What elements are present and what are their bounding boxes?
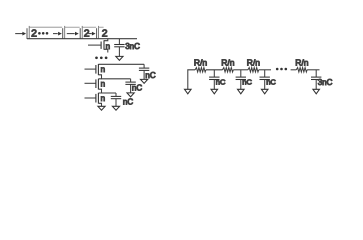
ground ladder input (185, 89, 192, 94)
wire nC1 to ground (143, 70, 145, 79)
wire M2 drain rail (102, 78, 131, 80)
box stage4 top edge (99, 26, 104, 28)
ground nC3 (112, 106, 119, 110)
capacitor nC3 drop (115, 93, 117, 96)
svg-text:2: 2 (102, 27, 108, 39)
wire ladder nC1 to ground (213, 80, 215, 90)
capacitor ladder nC3 plates (260, 76, 270, 78)
box stage2 left edge (64, 26, 66, 39)
svg-text:n: n (101, 80, 105, 89)
box stage1 left edge (28, 26, 30, 39)
ground ladder nC2 (238, 89, 245, 94)
box stage2 top edge (65, 26, 80, 28)
capacitor 3nC drop wire (118, 39, 120, 45)
wire nC2 to ground (130, 84, 132, 92)
wire dots to R4 (291, 69, 297, 71)
capacitor ladder 3nC drop (315, 70, 317, 77)
capacitor ladder nC2 plates (236, 76, 246, 78)
wire stage3 internal (88, 33, 92, 35)
svg-text:n: n (101, 65, 105, 74)
transistor M3 gate stub (85, 97, 96, 99)
wire M3 source to ground (98, 103, 101, 106)
gate bar stage 3 (79, 28, 81, 39)
transistor M3 channel (97, 93, 99, 104)
wire nC3 to ground (115, 99, 117, 107)
svg-text:nC: nC (242, 77, 252, 86)
svg-text:R/n: R/n (295, 57, 309, 67)
node arrowhead stage2 (58, 32, 62, 36)
box stage1 top edge (29, 26, 62, 28)
wire input lead (15, 33, 22, 35)
ground M3 source (98, 106, 105, 110)
resistor R4 (296, 68, 307, 72)
wire 3nC to ground (118, 47, 120, 57)
transistor M0 channel (103, 40, 105, 49)
wire M2 source to M3 drain (98, 89, 101, 93)
svg-text:nC: nC (132, 83, 142, 92)
node arrowhead stage3 (75, 32, 79, 36)
transistor M2 channel (97, 79, 99, 90)
ground nC1 (141, 79, 148, 83)
node dots series chain (95, 56, 98, 59)
transistor M1 gate stub (85, 68, 96, 70)
wire stage2 internal (67, 33, 75, 35)
capacitor nC2 plates (125, 81, 135, 83)
svg-text:R/n: R/n (221, 57, 235, 67)
box stage3 top edge (82, 26, 96, 28)
svg-text:3nC: 3nC (125, 42, 140, 51)
svg-text:3nC: 3nC (318, 78, 333, 87)
transistor M3 gate bar (95, 94, 97, 103)
wire M3 drain rail (102, 92, 117, 94)
capacitor nC3 plates (111, 95, 121, 97)
resistor R1 (195, 68, 206, 72)
wire M0 source stub (104, 49, 108, 52)
gate bar stage 4 (96, 28, 98, 39)
svg-text:R/n: R/n (247, 57, 261, 67)
transistor M0 gate bar (100, 42, 102, 49)
wire R4 to node4 (307, 69, 319, 71)
ground ladder 3nC (313, 89, 320, 94)
capacitor ladder nC3 drop (264, 70, 266, 77)
wire ladder nC3 to ground (264, 80, 266, 90)
resistor R2 (223, 68, 234, 72)
box stage3 left edge (81, 26, 83, 39)
node dots ladder (276, 68, 279, 71)
wire M0 drain stub (104, 39, 108, 41)
wire stage1 internal (53, 33, 58, 35)
node arrowhead stage4 (92, 32, 96, 36)
resistor R3 (248, 68, 259, 72)
node input arrowhead (22, 32, 26, 36)
svg-text:nC: nC (145, 71, 155, 80)
capacitor ladder 3nC plates (311, 76, 321, 78)
wire R3 to node3 (259, 69, 271, 71)
capacitor nC1 drop (143, 64, 145, 68)
transistor M2 gate stub (85, 82, 96, 84)
gate bar stage 1 (26, 28, 28, 39)
node dots stage1 (38, 32, 41, 35)
wire ladder nC2 to ground (240, 80, 242, 90)
transistor M2 gate bar (95, 79, 97, 88)
wire driver chain output rail (27, 38, 137, 40)
wire R1 to node1 (206, 69, 223, 71)
wire M1 drain rail (98, 63, 144, 65)
capacitor ladder nC1 plates (209, 76, 219, 78)
svg-text:n: n (106, 42, 110, 51)
transistor M1 channel (97, 64, 99, 75)
capacitor ladder nC2 drop (240, 70, 242, 77)
capacitor nC1 plates (139, 67, 149, 69)
ground 3nC (116, 56, 123, 60)
svg-text:nC: nC (123, 98, 133, 107)
svg-text:nC: nC (266, 77, 276, 86)
ground ladder nC1 (211, 89, 218, 94)
transistor M1 gate bar (95, 65, 97, 74)
box stage4 left edge (98, 26, 100, 39)
wire ladder input drop (188, 70, 195, 89)
ground nC2 (127, 93, 134, 97)
capacitor ladder nC1 drop (213, 70, 215, 77)
svg-text:R/n: R/n (194, 57, 208, 67)
wire R2 to node2 (233, 69, 248, 71)
transistor M0 gate stub (88, 44, 101, 46)
svg-text:n: n (101, 94, 105, 103)
svg-text:nC: nC (216, 77, 226, 86)
gate bar stage 2 (62, 28, 64, 39)
capacitor nC2 drop (130, 79, 132, 82)
svg-text:2: 2 (31, 27, 37, 39)
wire ladder 3nC to ground (315, 80, 317, 90)
capacitor 3nC plates (114, 44, 124, 46)
ground ladder nC3 (261, 89, 268, 94)
wire M1 source to M2 drain (98, 75, 101, 79)
